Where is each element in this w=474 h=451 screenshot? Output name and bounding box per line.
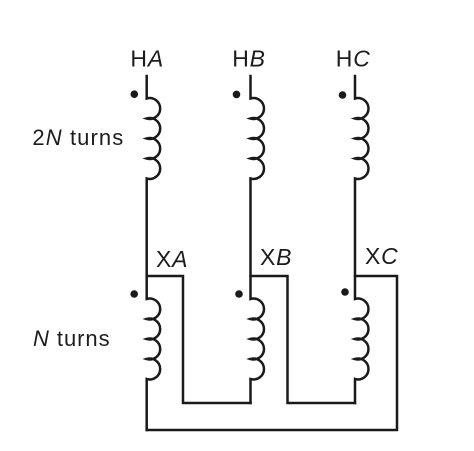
polarity dot X-A xyxy=(130,290,138,298)
polarity dot X-C xyxy=(341,288,349,296)
svg-text:XB: XB xyxy=(260,244,292,270)
svg-text:HA: HA xyxy=(130,46,164,72)
svg-text:XC: XC xyxy=(365,243,399,269)
svg-text:HC: HC xyxy=(336,46,371,72)
wire: bottom rail from X-A bottom up to node C xyxy=(147,276,397,430)
svg-text:2N turns: 2N turns xyxy=(32,125,124,150)
polarity dot X-B xyxy=(235,290,243,298)
winding H-A (2N turns, phase A primary) with series wire xyxy=(147,76,160,430)
wire: node B branch to X-C bottom xyxy=(251,276,356,403)
polarity dot H-C xyxy=(339,91,347,99)
wire: node A branch to X-B bottom xyxy=(147,276,251,403)
svg-text:XA: XA xyxy=(156,246,188,272)
winding H-B / X-B (phase B) with series wire xyxy=(251,76,264,403)
svg-text:N turns: N turns xyxy=(33,326,111,351)
polarity dot H-B xyxy=(233,91,241,99)
winding H-C / X-C (phase C) with series wire xyxy=(355,76,368,403)
svg-text:HB: HB xyxy=(232,46,266,72)
polarity dot H-A xyxy=(131,90,139,98)
